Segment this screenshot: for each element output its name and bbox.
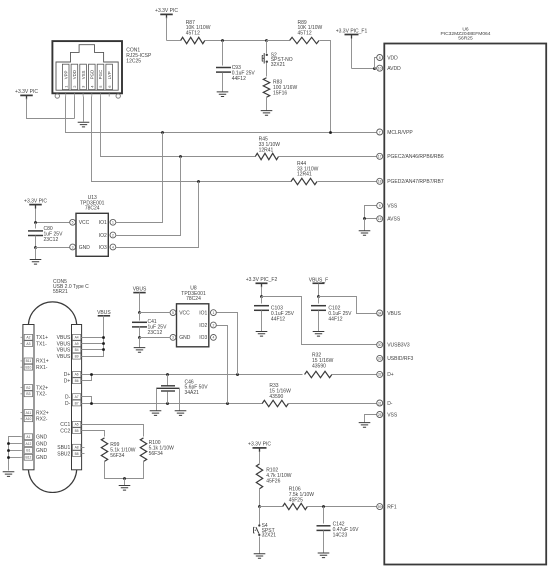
- U6 pin 25 stub: [383, 414, 385, 416]
- svg-text:GND: GND: [36, 448, 48, 454]
- label S2: [271, 52, 293, 68]
- svg-text:VBUS: VBUS: [387, 311, 401, 317]
- svg-text:A12: A12: [25, 442, 31, 446]
- wire C142 top lead: [323, 507, 325, 524]
- svg-text:VCC: VCC: [179, 310, 190, 316]
- wire R32 to D+ pin: [332, 374, 377, 376]
- CON5 pin A10 RX2-: [21, 416, 48, 423]
- junction VDD/AVDD: [373, 67, 376, 70]
- junction C102 top: [317, 295, 320, 298]
- CON5 pin B4 VBUS: [57, 347, 81, 354]
- svg-text:GND: GND: [36, 441, 48, 447]
- svg-text:55R21: 55R21: [53, 289, 68, 295]
- junction D+ to U8 IO1: [236, 373, 239, 376]
- svg-text:32X21: 32X21: [262, 533, 277, 539]
- svg-text:15F16: 15F16: [273, 91, 287, 97]
- svg-text:VDD: VDD: [387, 55, 398, 61]
- svg-text:4: 4: [212, 336, 214, 340]
- svg-text:5: 5: [172, 311, 174, 315]
- wire from +3.3V PIC_F1: [351, 39, 353, 69]
- wire C41 to GND node: [139, 327, 141, 338]
- U6 pin 18 (PGED2/AN47/RPB7/RB7) circle: [377, 178, 383, 184]
- svg-text:VBUS_F: VBUS_F: [309, 277, 328, 283]
- U6 pin 31 (D-) circle: [377, 400, 383, 406]
- svg-text:B5: B5: [75, 429, 79, 433]
- svg-text:56F34: 56F34: [110, 453, 124, 459]
- svg-text:1: 1: [112, 221, 114, 225]
- wire SBU1 stub: [82, 447, 85, 449]
- label R99 value: [110, 442, 136, 459]
- U6 pin 7 stub: [383, 131, 385, 133]
- svg-text:4: 4: [112, 245, 114, 249]
- svg-text:RX1+: RX1+: [36, 359, 49, 365]
- CON1 pin box 6 LVP: [106, 64, 113, 89]
- svg-text:B8: B8: [75, 452, 79, 456]
- wire D- A7 riser: [82, 397, 92, 404]
- resistor R33: [262, 400, 288, 406]
- CON1 pin box 1 VPP: [62, 64, 69, 89]
- CON1 pin 1 stub: [65, 93, 67, 96]
- wire to C80: [35, 223, 37, 229]
- resistor R102: [256, 464, 262, 489]
- capacitor C41: [132, 322, 147, 327]
- U6 pin 59 stub: [383, 506, 385, 508]
- wire net MCLR/VPP: [66, 97, 377, 133]
- label R44 value: [297, 161, 319, 178]
- svg-text:PGED2/AN47/RPB7/RB7: PGED2/AN47/RPB7/RB7: [387, 179, 444, 185]
- svg-text:3: 3: [172, 336, 174, 340]
- svg-text:2: 2: [212, 323, 214, 327]
- wire node to R106: [260, 506, 283, 508]
- resistor R106: [283, 503, 308, 509]
- label C41 value: [148, 319, 168, 336]
- U6 pin 10 (AVDD) circle: [377, 65, 383, 71]
- wire node to S2: [266, 41, 268, 54]
- label R45 value: [259, 137, 281, 154]
- wire VBUS to U8 VCC: [139, 293, 141, 313]
- svg-text:A3: A3: [26, 342, 30, 346]
- wire R44 to PGED2 pin: [318, 181, 377, 183]
- U6 pin 18 stub: [383, 180, 385, 182]
- CON5 pin A1 GND: [21, 434, 48, 441]
- svg-text:12R41: 12R41: [259, 147, 274, 153]
- svg-text:IO3: IO3: [99, 245, 107, 251]
- svg-text:78C24: 78C24: [85, 206, 100, 212]
- CON5 pin B9 VBUS: [57, 353, 81, 360]
- svg-text:34: 34: [378, 311, 382, 315]
- svg-text:A5: A5: [75, 423, 79, 427]
- junction S2 top: [265, 39, 268, 42]
- svg-text:44F12: 44F12: [271, 316, 285, 322]
- junction VBUS A4: [102, 336, 105, 339]
- wire R106 to RF1 pin: [308, 506, 377, 508]
- svg-text:RX2-: RX2-: [36, 417, 48, 423]
- IC U6 PIC32MZ2048EFM064 body: [384, 44, 546, 565]
- wire D+ B6 riser: [82, 375, 92, 381]
- wire C46 left shield to ground: [156, 389, 158, 411]
- CON1 pin box 2 VDD: [71, 64, 78, 89]
- svg-text:VBUS: VBUS: [57, 341, 71, 347]
- svg-text:+3.3V PIC: +3.3V PIC: [248, 442, 271, 448]
- svg-text:USBID/RF3: USBID/RF3: [387, 356, 413, 362]
- wire from +3.3V PIC: [259, 452, 261, 464]
- U6 pin 10 stub: [383, 67, 385, 69]
- svg-text:A2: A2: [26, 336, 30, 340]
- wire VBUS A4: [82, 337, 104, 339]
- CON1 pin 2 stub: [73, 93, 75, 96]
- svg-text:A1: A1: [26, 435, 30, 439]
- wire CC1 to R100: [82, 425, 144, 437]
- U8 pin 2 (IO2) circle: [211, 322, 217, 328]
- wire VBUS bus to B9: [82, 316, 104, 357]
- wire CON1 pin3 VSS to ground: [83, 97, 85, 122]
- wire U13 IO3 to PGED2: [116, 182, 199, 248]
- wire VSS to ground: [365, 415, 377, 423]
- wire from +3.3V PIC_F2: [261, 287, 263, 297]
- wire GND B12: [9, 457, 21, 459]
- capacitor C103: [254, 306, 269, 311]
- svg-text:A11: A11: [26, 411, 32, 415]
- junction VBUS B4: [102, 348, 105, 351]
- junction PGEC2 to U13 IO2: [179, 155, 182, 158]
- CON5 pin A4 VBUS: [57, 334, 81, 341]
- svg-text:33: 33: [378, 357, 382, 361]
- U6 pin 15 (AVSS) circle: [377, 216, 383, 222]
- U6 pin 9 (VSS) circle: [377, 203, 383, 209]
- ground below C41: [134, 348, 146, 353]
- CON5 pin A12 GND: [21, 441, 48, 448]
- wire net D- from CON5 B7: [82, 403, 263, 405]
- CON1 pin box 4 PGD: [89, 64, 96, 89]
- U6 pin 8 (VDD) circle: [377, 55, 383, 61]
- switch S4 SPST: [254, 524, 261, 536]
- ground below C80: [30, 260, 42, 265]
- svg-text:44F12: 44F12: [232, 76, 246, 82]
- CON1 pin 5 stub: [100, 93, 102, 96]
- U6 pin 17 stub: [383, 155, 385, 157]
- svg-text:+3.3V PIC_F2: +3.3V PIC_F2: [246, 277, 278, 283]
- wire R83 to ground: [266, 98, 268, 111]
- label R100 value: [149, 440, 175, 457]
- svg-text:45F26: 45F26: [266, 478, 280, 484]
- power flag VBUS (U8): [133, 287, 147, 293]
- label R102 value: [266, 468, 292, 485]
- junction C93 top: [221, 39, 224, 42]
- CON1 mounting posts: [55, 94, 120, 98]
- junction D- to C46: [166, 402, 169, 405]
- svg-text:B4: B4: [75, 348, 79, 352]
- junction C142 top: [322, 505, 325, 508]
- U6 pin 9 stub: [383, 205, 385, 207]
- svg-text:A4: A4: [75, 336, 79, 340]
- wire to VDD pin: [375, 58, 377, 69]
- CON5 pin A8 SBU1: [57, 444, 81, 451]
- wire to ground (CC): [124, 479, 126, 486]
- ground below VSS: [359, 423, 371, 428]
- power +3.3V PIC_F2: [246, 277, 278, 287]
- wire R45 to PGEC2 pin: [279, 156, 377, 158]
- resistor R100: [140, 438, 146, 461]
- CON5 pin B3 TX2-: [21, 391, 48, 398]
- CON5 pin A6 D+: [64, 372, 81, 379]
- CON5 pin B8 SBU2: [57, 451, 81, 458]
- svg-text:78C24: 78C24: [186, 296, 201, 302]
- CON5 pin B11 RX1+: [21, 358, 49, 365]
- capacitor C102: [311, 306, 326, 311]
- svg-text:IO2: IO2: [99, 233, 107, 239]
- label R33 value: [269, 383, 291, 400]
- label C142 value: [333, 522, 360, 539]
- svg-text:IO1: IO1: [199, 310, 207, 316]
- label S4: [262, 523, 277, 539]
- svg-text:8: 8: [379, 56, 381, 60]
- CON1 pin box 3 VSS: [80, 64, 87, 89]
- junction R99/R100 ground: [123, 477, 126, 480]
- wire AVSS to ground: [364, 219, 366, 231]
- svg-text:LVP: LVP: [107, 71, 112, 79]
- wire U8 IO1 to D+: [217, 313, 238, 375]
- junction VBUS A9: [102, 342, 105, 345]
- wire C80 to GND node: [35, 236, 37, 248]
- svg-text:VBUS: VBUS: [97, 310, 111, 316]
- svg-text:SBU1: SBU1: [57, 445, 70, 451]
- svg-text:43590: 43590: [312, 363, 326, 369]
- U8 pin 1 (IO1) circle: [211, 310, 217, 316]
- junction D- rows: [90, 402, 93, 405]
- svg-text:D+: D+: [64, 372, 71, 378]
- U13 pin 1 (IO1) circle: [110, 219, 116, 225]
- wire from +3.3V PIC: [166, 18, 168, 41]
- U6 pin 31 stub: [383, 402, 385, 404]
- svg-text:CC2: CC2: [60, 428, 70, 434]
- svg-text:PGD: PGD: [90, 70, 95, 80]
- wire GND A12: [9, 443, 21, 445]
- svg-text:GND: GND: [36, 455, 48, 461]
- svg-text:D+: D+: [387, 372, 394, 378]
- U6 pin 8 stub: [383, 57, 385, 59]
- junction GND B1: [7, 449, 10, 452]
- wire U8 GND pin: [140, 337, 171, 339]
- svg-text:VSS: VSS: [387, 412, 398, 418]
- ground below CON1 VSS: [78, 122, 90, 127]
- svg-text:IO1: IO1: [99, 220, 107, 226]
- svg-text:45T12: 45T12: [298, 31, 312, 37]
- label C80 value: [44, 226, 64, 243]
- svg-text:32: 32: [378, 373, 382, 377]
- ground below CON5: [3, 472, 15, 477]
- wire R87 to S2 node: [205, 40, 267, 42]
- svg-text:12R41: 12R41: [297, 172, 312, 178]
- svg-text:25: 25: [378, 413, 382, 417]
- svg-text:B2: B2: [26, 386, 30, 390]
- svg-text:VBUS: VBUS: [57, 348, 71, 354]
- svg-text:GND: GND: [179, 335, 191, 341]
- label U6 refdes: [440, 26, 490, 41]
- wire GND B1: [9, 450, 21, 452]
- svg-text:B10: B10: [25, 366, 31, 370]
- U8 pin 3 (GND) circle: [170, 335, 176, 341]
- wire R99/R100 to ground node: [105, 462, 144, 479]
- svg-text:RX1-: RX1-: [36, 365, 48, 371]
- U6 pin 30 (VUSB3V3) circle: [377, 342, 383, 348]
- wire to C103: [261, 297, 263, 304]
- svg-text:34A21: 34A21: [185, 390, 200, 396]
- wire D+ to C46: [167, 375, 169, 386]
- IC U13 TPD3E001 body: [76, 213, 108, 256]
- CON5 pin A7 D-: [65, 394, 81, 401]
- svg-text:RX2+: RX2+: [36, 410, 49, 416]
- CON5 pin A9 VBUS: [57, 341, 81, 348]
- svg-text:45T12: 45T12: [186, 31, 200, 37]
- wire to C41: [139, 313, 141, 321]
- svg-text:AVDD: AVDD: [387, 66, 401, 72]
- U13 pin 2 (IO2) circle: [110, 232, 116, 238]
- resistor R89: [290, 37, 319, 43]
- svg-text:VBUS: VBUS: [57, 335, 71, 341]
- CON5 pin A11 RX2+: [21, 410, 49, 417]
- junction D+ to C46: [166, 373, 169, 376]
- svg-text:B11: B11: [26, 359, 32, 363]
- svg-text:TX1+: TX1+: [36, 335, 48, 341]
- svg-text:18: 18: [378, 180, 382, 184]
- ground below R83: [261, 111, 273, 116]
- wire R102 to RF1 node: [259, 489, 261, 507]
- svg-text:IO3: IO3: [199, 335, 207, 341]
- capacitor C93: [216, 68, 231, 73]
- wire CON1 pin2 down: [74, 97, 76, 119]
- svg-text:VUSB3V3: VUSB3V3: [387, 343, 410, 349]
- CON5 pin B2 TX2+: [21, 385, 49, 392]
- svg-text:32X21: 32X21: [271, 62, 286, 68]
- wire net PGD to R44: [92, 97, 292, 182]
- wire C93 to ground: [222, 73, 224, 92]
- junction GND A12: [7, 442, 10, 445]
- junction MCLR to R89: [329, 131, 332, 134]
- ground below R99/R100: [119, 486, 131, 491]
- U6 pin 33 stub: [383, 357, 385, 359]
- svg-text:GND: GND: [79, 245, 91, 251]
- label R87 value: [186, 20, 211, 37]
- svg-text:VSS: VSS: [81, 70, 86, 79]
- wire to C93: [222, 41, 224, 66]
- resistor R99: [101, 438, 107, 461]
- ground below C142: [318, 553, 330, 558]
- power flag VBUS (CON5): [97, 310, 111, 316]
- junction PGED2 to U13 IO3: [197, 180, 200, 183]
- svg-text:VDD: VDD: [72, 70, 77, 79]
- svg-text:23C12: 23C12: [148, 330, 163, 336]
- svg-text:PGC: PGC: [98, 70, 103, 80]
- svg-text:+3.3V PIC: +3.3V PIC: [15, 89, 38, 95]
- resistor R83: [263, 78, 269, 98]
- svg-text:5: 5: [72, 221, 74, 225]
- svg-text:VCC: VCC: [79, 220, 90, 226]
- svg-text:B9: B9: [75, 355, 79, 359]
- svg-text:3: 3: [72, 245, 74, 249]
- U6 pin 32 (D+) circle: [377, 371, 383, 377]
- junction D- to U8 IO2: [226, 402, 229, 405]
- resistor R32: [305, 371, 332, 377]
- power +3.3V PIC_F1: [336, 28, 368, 38]
- svg-text:23C12: 23C12: [44, 237, 59, 243]
- label U8 refdes: [181, 285, 206, 302]
- wire S2 to R83: [266, 63, 268, 77]
- capacitor C80: [28, 231, 43, 236]
- resistor R87: [181, 37, 205, 43]
- svg-text:VSS: VSS: [387, 203, 398, 209]
- power flag VBUS_F: [309, 277, 328, 283]
- wire PIC_F2 to VUSB3V3: [262, 297, 377, 345]
- ground below S4: [254, 554, 266, 559]
- svg-text:A6: A6: [75, 373, 79, 377]
- svg-text:A7: A7: [75, 395, 79, 399]
- junction GND B12: [7, 456, 10, 459]
- wire R33 to D- pin: [289, 403, 377, 405]
- ground below C93: [217, 92, 229, 97]
- wire C142 to ground: [323, 531, 325, 553]
- svg-text:17: 17: [378, 155, 382, 159]
- svg-text:PGEC2/AN46/RPB6/RB6: PGEC2/AN46/RPB6/RB6: [387, 154, 444, 160]
- CON5 pin B12 GND: [21, 454, 48, 461]
- svg-text:31: 31: [378, 401, 382, 405]
- resistor R44: [291, 178, 317, 184]
- U6 pin 33 (USBID/RF3) circle: [377, 355, 383, 361]
- svg-text:+3.3V PIC: +3.3V PIC: [24, 198, 47, 204]
- power +3.3V PIC (CON1): [15, 89, 38, 99]
- wire VBUS_F down: [318, 284, 320, 297]
- svg-text:D-: D-: [387, 401, 393, 407]
- svg-text:56F34: 56F34: [149, 451, 163, 457]
- U6 pin 7 (MCLR/VPP) circle: [377, 129, 383, 135]
- wire +3.3V to U13 VCC: [36, 222, 70, 224]
- CON5 pin A2 TX1+: [21, 334, 49, 341]
- wire VSS/AVSS: [365, 206, 377, 219]
- U13 pin 4 (IO3) circle: [110, 244, 116, 250]
- svg-text:7: 7: [379, 130, 381, 134]
- U13 pin 5 (VCC) circle: [70, 219, 76, 225]
- wire to ground (C41): [139, 338, 141, 348]
- svg-text:59: 59: [378, 505, 382, 509]
- U6 pin 59 (RF1) circle: [377, 504, 383, 510]
- wire to U8 VCC pin: [140, 312, 171, 314]
- wire to C102: [318, 297, 320, 304]
- power +3.3V PIC (U13): [24, 198, 47, 208]
- label R83 value: [273, 80, 297, 97]
- U6 pin 17 (PGEC2/AN46/RPB6/RB6) circle: [377, 153, 383, 159]
- junction C80 top: [34, 221, 37, 224]
- svg-text:A10: A10: [25, 417, 31, 421]
- resistor R45: [255, 153, 278, 159]
- ground below C102: [313, 332, 325, 337]
- wire VBUS A9: [82, 343, 104, 345]
- ground below C46 right: [175, 411, 187, 416]
- U13 pin 3 (GND) circle: [70, 244, 76, 250]
- wire net PGC to R45: [101, 97, 256, 157]
- ground below AVSS: [359, 231, 371, 236]
- junction C41 bottom: [138, 336, 141, 339]
- wire +3.3V rail to R87: [167, 40, 181, 42]
- U8 pin 4 (IO3) circle: [211, 335, 217, 341]
- svg-text:VBUS: VBUS: [133, 287, 147, 293]
- U6 pin 34 stub: [383, 312, 385, 314]
- CON1 pin 4 stub: [91, 93, 93, 96]
- svg-text:RF1: RF1: [387, 504, 397, 510]
- power +3.3V PIC (RF1): [248, 442, 271, 452]
- label R32 value: [312, 353, 334, 370]
- svg-text:VBUS: VBUS: [57, 354, 71, 360]
- CON1 pin box 5 PGC: [97, 64, 104, 89]
- U6 pin 34 (VBUS) circle: [377, 310, 383, 316]
